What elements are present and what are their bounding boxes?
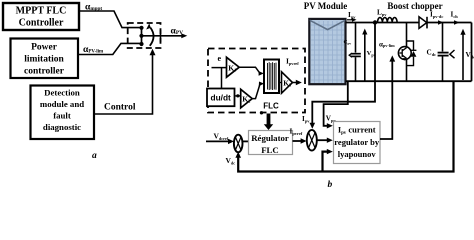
svg-text:MPPT FLC: MPPT FLC: [16, 6, 67, 17]
svg-text:PV Module: PV Module: [304, 1, 348, 11]
svg-text:b: b: [328, 180, 333, 189]
svg-text:Controller: Controller: [19, 18, 64, 29]
svg-text:lyapounov: lyapounov: [338, 149, 377, 159]
svg-text:limitation: limitation: [24, 55, 64, 65]
svg-text:fault: fault: [53, 111, 71, 121]
svg-text:Power: Power: [31, 43, 58, 53]
svg-text:e: e: [218, 54, 222, 63]
svg-text:module and: module and: [40, 99, 84, 109]
svg-text:Boost chopper: Boost chopper: [387, 1, 442, 11]
svg-text:controller: controller: [24, 67, 65, 77]
svg-text:Detection: Detection: [44, 88, 80, 98]
svg-text:Régulator: Régulator: [251, 133, 289, 143]
svg-text:du/dt: du/dt: [211, 93, 232, 103]
svg-text:FLC: FLC: [261, 145, 279, 155]
svg-text:Control: Control: [104, 103, 136, 113]
svg-text:FLC: FLC: [263, 102, 279, 111]
svg-text:regulator by: regulator by: [334, 137, 380, 147]
svg-text:a: a: [92, 151, 97, 161]
svg-text:diagnostic: diagnostic: [43, 122, 81, 132]
